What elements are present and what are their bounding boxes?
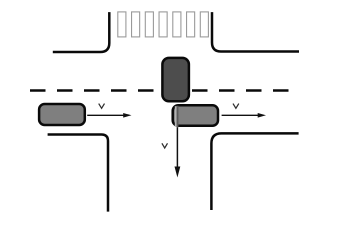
crosswalk stripe 5: [173, 12, 181, 37]
down-arrow dark strip over car B: [177, 106, 179, 128]
label v (car C): [162, 143, 168, 148]
label v (car A): [99, 104, 105, 109]
crosswalk stripe 2: [132, 12, 140, 37]
down-arrow light strip over car B: [175, 106, 177, 127]
curb top-right corner: [212, 12, 299, 51]
curb bottom-left corner: [48, 135, 108, 212]
crosswalk stripe 1: [118, 12, 126, 37]
dashed center line: [30, 89, 289, 92]
label v (car B): [233, 104, 239, 109]
crosswalk stripe 3: [145, 12, 153, 37]
arrow for car A velocity: [87, 114, 124, 116]
car C (dark, in intersection, facing down): [162, 58, 189, 101]
car B (right, gray, facing right): [173, 105, 218, 125]
curb top-left corner: [53, 12, 110, 52]
crosswalk stripe 7: [200, 12, 208, 37]
curb bottom-right corner: [211, 133, 298, 210]
arrow for car B velocity: [222, 114, 259, 116]
arrow for car C velocity (downward): [176, 127, 178, 168]
crosswalk stripe 4: [159, 12, 167, 37]
car A (left, gray, facing right): [39, 104, 85, 125]
crosswalk stripe 6: [187, 12, 195, 37]
